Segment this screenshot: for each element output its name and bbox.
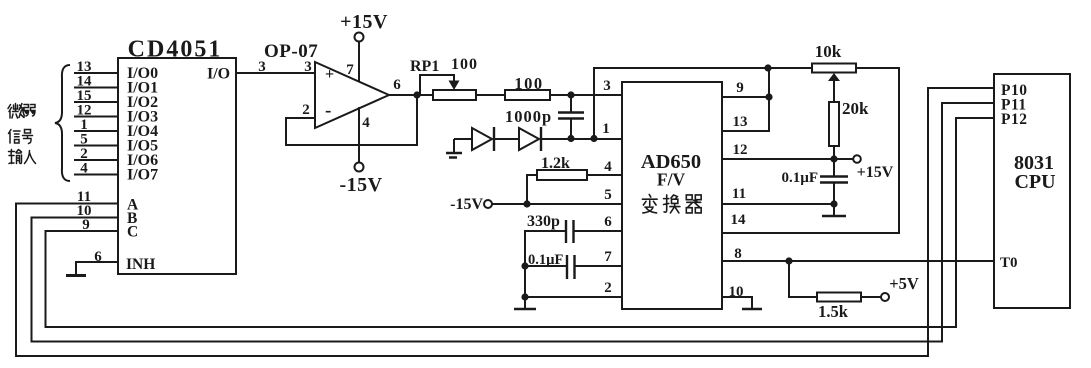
wire CD4051 output to op-amp, net 3 [236,72,315,74]
svg-text:330p: 330p [527,213,560,230]
label xinhao (Chinese: xin) [9,130,21,144]
wire AD650 pin2 [525,296,622,298]
svg-text:100: 100 [451,56,478,73]
junction pin2 to vertical [521,293,528,300]
svg-text:CPU: CPU [1014,171,1055,193]
label weiruo (Chinese: wei) [8,104,25,119]
svg-text:10: 10 [729,284,744,300]
svg-text:7: 7 [604,249,612,265]
svg-text:8: 8 [734,246,742,262]
svg-text:13: 13 [733,114,748,130]
ground at INH [66,274,86,277]
wire pin8 branch to 1.5k [789,261,817,297]
wire net B : CD4051 pin10 to 8031 P11 [32,103,995,342]
svg-text:0.1µF: 0.1µF [781,170,818,186]
svg-text:INH: INH [126,256,155,273]
wire AD650 pin8 to 8031 T0 [722,260,994,262]
resistor R5 1.5k [817,293,861,302]
wire INH pin 6 [76,262,118,274]
svg-text:4: 4 [362,115,370,131]
wire op-amp output net 6 [389,94,432,96]
svg-text:1.5k: 1.5k [818,302,849,321]
wire net C : CD4051 pin9 to 8031 P12 [46,118,995,327]
wire D2 to AD650 pin1 [541,138,622,140]
wire input I/O4 pin 1 [74,130,118,132]
svg-text:2: 2 [302,102,310,118]
svg-text:9: 9 [736,80,744,96]
svg-text:I/O7: I/O7 [127,167,158,184]
wire AD650 pin4 to 1.2k [527,175,622,204]
svg-text:1000p: 1000p [505,107,552,126]
wire riser pin1 to top rail [594,68,899,233]
wire AD650 pin11 [722,203,834,205]
svg-text:F/V: F/V [657,170,686,190]
junction top rail [764,64,771,71]
svg-text:3: 3 [304,59,312,75]
svg-text:RP1: RP1 [410,58,439,75]
svg-text:7: 7 [346,62,354,78]
junction pin9 node [765,93,772,100]
wire AD650 pin10 to ground [722,297,752,308]
terminal -15V (AD650 pin5) [484,200,492,208]
svg-text:+15V: +15V [340,11,388,33]
wire input I/O7 pin 4 [74,174,118,176]
IC U3 AD650 box [622,82,722,309]
diode D2 [519,128,539,150]
IC U4 8031 box [994,74,1070,308]
wire AD650 pin9 [722,68,769,97]
ground at diode D1 [453,139,455,152]
svg-text:14: 14 [731,212,747,228]
wire net A : CD4051 pin11 to 8031 P10 [16,88,994,356]
wire feedback loop [286,95,417,145]
wire RP1 wiper loop [420,75,454,95]
wire AD650 pin5 to -15V [492,203,622,205]
svg-text:20k: 20k [842,99,869,118]
terminal +15V (op-amp) [355,33,364,42]
ground below pin2 vertical [524,297,526,308]
svg-text:CD4051: CD4051 [128,37,223,63]
svg-text:6: 6 [94,249,102,265]
wire R2 to AD650 pin3 [550,94,622,96]
wire AD650 pin12 to +15V [722,158,853,160]
wire AD650 pin13 [722,97,769,131]
svg-text:+: + [325,66,334,83]
ground at pin10 [742,308,762,310]
svg-text:6: 6 [393,77,401,93]
wire input I/O5 pin 5 [74,145,118,147]
svg-text:I/O: I/O [207,66,230,83]
svg-text:+15V: +15V [857,164,894,181]
junction vertical riser on pin1 wire [590,135,597,142]
svg-text:C: C [127,224,138,241]
label xinhao (Chinese: hao) [23,130,33,144]
wire D1 to D2 [494,138,519,140]
svg-text:12: 12 [733,142,748,158]
label bianhuanqi (Chinese: huan) [664,195,680,213]
wire RP1 to R2 [476,94,505,96]
svg-text:+5V: +5V [889,274,919,293]
svg-text:3: 3 [603,78,611,94]
wire op-amp pin7 to +15V [358,42,360,82]
svg-text:-: - [325,100,331,121]
svg-text:4: 4 [604,159,612,175]
svg-text:11: 11 [732,186,746,202]
resistor R4 20k [829,102,839,146]
svg-text:2: 2 [604,280,612,296]
svg-text:1: 1 [602,121,610,137]
terminal +15V (AD650 pin12) [853,155,861,163]
label weiruo (Chinese: ruo) [24,105,35,117]
wire op-amp pin4 to -15V [358,107,360,162]
wire input I/O0 pin 13 [74,72,118,74]
junction pin8 node [785,257,792,264]
junction pin11 node [830,200,837,207]
wire input I/O3 pin 12 [74,116,118,118]
junction cap C3 to vertical [521,262,528,269]
ground at pin11 [833,204,835,215]
brace input bundle [55,65,70,181]
wire input I/O6 pin 2 [74,159,118,161]
label shuru (Chinese: shu) [9,150,22,164]
svg-text:-15V: -15V [339,174,382,196]
svg-text:T0: T0 [1000,255,1018,271]
terminal +5V [881,293,889,301]
junction 1.2k to pin5 wire [523,200,530,207]
junction output node [413,91,420,98]
wire input I/O1 pin 14 [74,87,118,89]
label bianhuanqi (Chinese: bian) [642,194,657,213]
svg-text:6: 6 [604,214,612,230]
terminal -15V (op-amp) [355,163,364,172]
svg-text:10k: 10k [815,42,842,61]
junction cap bottom [567,135,574,142]
IC U1 CD4051 box [118,58,236,274]
wire diode input [454,138,472,140]
junction cap top [567,91,574,98]
svg-text:P12: P12 [1001,111,1027,128]
svg-text:4: 4 [80,161,88,177]
junction pin12 node [830,155,837,162]
label shuru (Chinese: ru) [25,151,36,164]
wire input I/O2 pin 15 [74,101,118,103]
diode D1 [472,128,492,150]
svg-text:-15V: -15V [450,196,483,213]
label bianhuanqi (Chinese: qi) [686,195,701,213]
svg-text:5: 5 [604,187,612,203]
